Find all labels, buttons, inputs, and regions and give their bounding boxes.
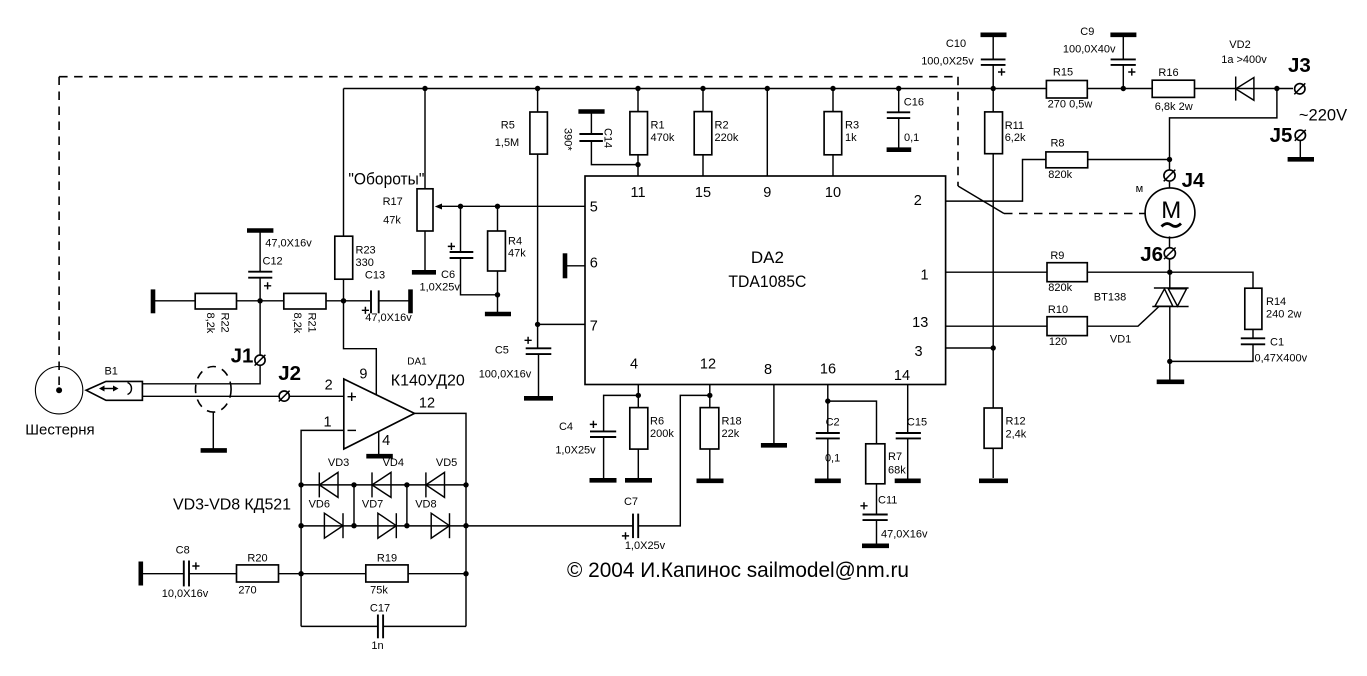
wire: pin1 to R9 [946,271,1047,273]
svg-text:R5: R5 [501,119,515,131]
svg-text:390*: 390* [562,128,574,151]
junction pin5/C6 [458,204,463,209]
svg-text:1,5M: 1,5M [495,137,519,149]
resistor R7 [866,444,885,484]
svg-text:R16: R16 [1158,67,1178,79]
svg-text:C1: C1 [1270,337,1284,349]
svg-text:R2: R2 [715,120,729,132]
resistor R14 [1245,288,1262,329]
ground R12 [979,478,1008,483]
wire: R18 ground lead [709,449,711,479]
diode VD3 [319,472,338,497]
wire: R4 top lead [497,206,499,231]
label C10 plus [998,68,1005,75]
wire: triac bottom lead [1169,306,1171,379]
wire: B1 top lead to J1 [142,301,260,384]
svg-text:R23: R23 [356,245,376,257]
wire: pin3 to R11/R12 junction [946,347,994,349]
ground C15 [895,478,921,483]
wire: R17 bottom lead [424,231,426,271]
svg-text:8: 8 [764,362,772,378]
ground R4 [485,312,511,317]
svg-text:0,1: 0,1 [825,453,840,465]
svg-text:820k: 820k [1048,169,1072,181]
diode VD4 [372,472,391,497]
IC DA2 TDA1085C [585,176,946,385]
svg-text:47,0X16v: 47,0X16v [365,312,412,324]
svg-text:VD1: VD1 [1110,334,1131,346]
svg-text:VD3-VD8 КД521: VD3-VD8 КД521 [173,496,291,513]
wire: pin2 to R8 [946,160,1046,202]
sensor B1 body [86,381,142,400]
connector J4 [1164,170,1176,182]
svg-text:R19: R19 [377,553,397,565]
junction R1/C14 [635,162,640,167]
resistor R19 [366,565,408,582]
svg-text:R6: R6 [650,416,664,428]
terminal bar left of R22 [151,289,156,313]
diode VD6 [324,513,343,538]
junction bus/R5 [535,86,540,91]
svg-text:VD7: VD7 [362,499,383,511]
svg-text:TDA1085C: TDA1085C [728,272,806,291]
capacitor C1 [1241,329,1265,344]
wire: opamp pin4 ground lead [378,432,380,455]
wire: pin9 branch [766,89,768,177]
svg-text:C6: C6 [441,269,455,281]
wire: opamp pin1 feedback vertical [301,430,344,626]
svg-text:м: м [1136,183,1144,195]
svg-text:J5: J5 [1270,124,1293,147]
wire: R6 ground lead [637,449,639,478]
label C8 plus [192,562,199,569]
svg-text:C8: C8 [176,545,190,557]
svg-text:R22: R22 [219,313,231,333]
resistor R10 [1047,317,1087,336]
junction R8/motor [1167,157,1172,162]
wire: motor to J6 [1169,236,1171,272]
svg-text:100,0X40v: 100,0X40v [1063,44,1116,56]
svg-text:R18: R18 [722,416,742,428]
resistor R9 [1047,263,1087,282]
capacitor C2 [816,433,840,479]
svg-text:9: 9 [359,366,367,382]
svg-text:15: 15 [695,185,711,201]
svg-text:1a >400v: 1a >400v [1221,54,1267,66]
ground C11 [862,543,889,548]
svg-text:VD4: VD4 [383,457,404,469]
junction bus/R17 [422,86,427,91]
svg-text:"Обороты": "Обороты" [348,170,424,189]
wire: opamp pin12 output vertical [415,413,467,626]
wire: R19 to output vertical [408,573,466,575]
junction row1 a [298,482,303,487]
capacitor C11 [863,484,888,544]
svg-text:4: 4 [630,357,638,373]
resistor R20 [237,565,279,582]
svg-text:100,0X25v: 100,0X25v [921,56,974,68]
resistor R3 [824,112,842,155]
junction bus/R1 [635,86,640,91]
svg-text:R8: R8 [1050,138,1064,150]
svg-text:C15: C15 [907,417,927,429]
ground C5 [524,396,553,401]
svg-text:7: 7 [590,319,598,335]
junction row2 b [351,523,356,528]
svg-text:К140УД20: К140УД20 [391,373,465,390]
junction row2 c [404,523,409,528]
diode VD5 [426,472,445,497]
svg-text:12: 12 [700,357,716,373]
svg-text:0,1: 0,1 [904,132,919,144]
junction pin3 [991,345,996,350]
svg-text:C11: C11 [878,495,897,507]
svg-text:R12: R12 [1006,416,1026,428]
svg-text:J4: J4 [1182,169,1205,192]
capacitor C12 [247,231,273,301]
svg-text:R7: R7 [888,451,902,463]
svg-text:47k: 47k [383,215,401,227]
svg-text:R20: R20 [247,553,267,565]
wire: R2 branch to pin15 [702,89,704,177]
resistor R6 [630,408,648,450]
wire: R17 branch from bus [424,89,426,189]
svg-text:R11: R11 [1005,120,1024,132]
svg-text:3: 3 [914,344,922,360]
wire: top supply bus [344,88,1294,90]
junction bus/C9 [1121,86,1126,91]
svg-text:270: 270 [238,585,256,597]
ground J5 [1288,157,1314,162]
wire: J3 branch down to motor [1170,89,1277,170]
ground shield [201,448,227,453]
svg-text:1,0X25v: 1,0X25v [555,445,596,457]
svg-text:R15: R15 [1053,66,1073,78]
svg-text:1k: 1k [845,132,857,144]
svg-text:M: M [1161,197,1181,224]
svg-text:330: 330 [356,257,374,269]
junction row2 a [298,523,303,528]
label C11 plus [860,502,867,509]
diode VD8 [431,513,449,538]
gear sensor circle (Шестерня) [35,367,82,414]
svg-text:2: 2 [914,193,922,209]
svg-text:10,0X16v: 10,0X16v [162,588,209,600]
wire: pin4 branch [637,385,639,450]
wire: shield ground lead [212,412,214,449]
wire: dashed link to motor [1004,213,1162,215]
junction bus/R2 [700,86,705,91]
capacitor C4 [590,431,616,478]
junction bus/R3 [830,86,835,91]
svg-text:9: 9 [763,185,771,201]
terminal bar left of C8 [139,562,144,586]
connector J5 [1295,130,1306,141]
svg-text:0,47X400v: 0,47X400v [1255,353,1308,365]
svg-text:16: 16 [820,362,836,378]
svg-text:R17: R17 [383,196,403,208]
capacitor C5 [526,348,552,396]
svg-text:2,4k: 2,4k [1006,429,1027,441]
svg-text:VD5: VD5 [436,457,457,469]
svg-text:~220V: ~220V [1299,107,1347,125]
label C12 plus [264,282,271,289]
wire: pin13 to R10 [946,325,1047,327]
svg-text:BT138: BT138 [1094,292,1126,304]
svg-text:100,0X16v: 100,0X16v [479,369,532,381]
wire: C17 bottom row [301,625,378,627]
svg-text:J6: J6 [1140,243,1163,266]
wire: R23 branch vertical from bus to opamp pin9 [344,89,377,395]
junction R21/R23/C13 [341,298,346,303]
connector J2 [279,391,290,402]
svg-text:C5: C5 [495,345,509,357]
svg-text:47k: 47k [508,248,526,260]
resistor R23 [335,236,353,279]
svg-text:B1: B1 [104,365,117,377]
wire: pin7 stub [538,323,585,325]
svg-text:© 2004 И.Капинос sailmodel@nm.: © 2004 И.Капинос sailmodel@nm.ru [567,558,909,582]
junction bus/C16 [896,86,901,91]
label C5 plus [525,337,532,344]
wire: R20 to R19 [279,573,366,575]
resistor R4 [488,231,506,271]
svg-text:VD6: VD6 [309,499,330,511]
svg-text:6,8k 2w: 6,8k 2w [1155,101,1193,113]
motor M circle [1145,188,1195,238]
wire: dashed mechanical link right vertical [957,77,959,186]
resistor R5 [530,112,548,154]
svg-text:R1: R1 [651,120,665,132]
ground R6 [625,478,652,483]
svg-text:6: 6 [590,256,598,272]
svg-text:820k: 820k [1048,282,1072,294]
svg-text:200k: 200k [650,428,674,440]
wire: pin16 to R7 [828,401,877,444]
svg-text:C14: C14 [602,128,614,148]
capacitor C16 [887,89,910,149]
svg-text:J2: J2 [278,362,301,385]
svg-text:22k: 22k [722,428,740,440]
wire: R22 R21 C13 row [155,300,370,302]
svg-text:C7: C7 [624,496,638,508]
svg-text:VD2: VD2 [1229,39,1250,51]
resistor R11 [985,112,1003,154]
wire: pin14 branch [907,385,909,434]
ground pin8 [761,443,787,448]
junction pin5/R4 [495,204,500,209]
junction pin4 [636,393,641,398]
svg-text:C17: C17 [370,603,390,615]
opamp plus sign [348,393,357,401]
wire: R8 to motor net [1088,159,1170,161]
wire: diode row 2 to C7 [301,525,633,527]
resistor R8 [1046,152,1088,168]
junction pin16 [825,398,830,403]
junction row1 b [351,482,356,487]
wire: R5 branch from bus to pin7 and C5 [537,89,539,349]
junction R22/R21/C12 [257,298,262,303]
svg-text:J1: J1 [231,345,254,368]
wire: dashed mechanical link left vertical [58,77,60,385]
wire: J6 node to triac [1169,272,1171,287]
svg-text:120: 120 [1049,336,1067,348]
wire: B1 bottom lead to opamp pin2 [142,395,344,397]
svg-text:C4: C4 [559,421,573,433]
svg-text:6,2k: 6,2k [1005,132,1026,144]
wire: pin4 to C4 [604,395,639,431]
wire: J4 to motor [1169,182,1171,188]
svg-text:Шестерня: Шестерня [25,422,94,439]
svg-text:2: 2 [325,378,333,394]
resistor R15 [1046,81,1087,99]
wire: R4 bottom lead [497,271,499,312]
svg-text:240 2w: 240 2w [1266,309,1302,321]
resistor R22 [195,293,236,309]
svg-text:47,0X16v: 47,0X16v [881,529,928,541]
label C4 plus [590,421,597,428]
wire: diode rows link b [406,485,408,526]
ground opamp pin4 [366,454,393,459]
svg-text:DA2: DA2 [751,248,784,267]
svg-text:R4: R4 [508,236,522,248]
junction J6/R9 [1167,270,1172,275]
junction R19/output [463,571,468,576]
ground R18 [697,478,724,483]
svg-text:C10: C10 [946,38,966,50]
wire: R10 to triac gate [1087,307,1159,327]
wire: R12 ground lead [992,448,994,478]
wire: diagonal link segment [958,186,1004,214]
triac VD1 BT138 [1152,288,1188,307]
diode VD2 [1236,77,1254,101]
resistor R16 [1152,80,1194,97]
svg-text:14: 14 [894,368,910,384]
motor tilde [1162,224,1182,227]
svg-text:75k: 75k [370,585,388,597]
junction bus/J3 branch [1274,86,1279,91]
capacitor C14 [578,112,638,165]
svg-text:4: 4 [382,433,390,449]
svg-text:68k: 68k [888,465,906,477]
svg-text:8,2k: 8,2k [291,313,303,334]
svg-text:C16: C16 [904,96,924,108]
wire: R1 branch to pin11 [637,89,639,177]
svg-text:47,0X16v: 47,0X16v [265,238,312,250]
label C9 plus [1128,68,1135,75]
wire: C1 bottom to triac node [1170,344,1253,361]
wire: R9 to J6 node and R14 [1087,272,1253,288]
op-amp DA1 [344,379,415,449]
svg-text:470k: 470k [651,132,675,144]
junction row1 d [463,482,468,487]
svg-text:R10: R10 [1048,304,1068,316]
connector J3 [1294,83,1305,94]
svg-text:R14: R14 [1266,296,1286,308]
svg-text:VD8: VD8 [415,499,436,511]
svg-text:11: 11 [630,185,645,201]
junction pin7 [535,322,540,327]
capacitor C17 [378,615,466,639]
wire: pin8 ground lead [773,385,775,444]
svg-text:13: 13 [912,315,928,331]
capacitor C6 [450,206,498,294]
wire: dashed mechanical link top horizontal [59,76,958,78]
junction bus/pin9 [765,86,770,91]
shield ellipse [196,367,232,413]
resistor R12 [984,408,1002,448]
opamp minus sign [348,429,357,431]
connector J6 [1164,248,1176,260]
svg-text:C9: C9 [1080,26,1094,38]
ground C4 [590,478,617,483]
svg-text:R21: R21 [306,313,318,333]
svg-text:R3: R3 [845,120,859,132]
svg-text:1,0X25v: 1,0X25v [420,282,461,294]
junction pin12 [707,393,712,398]
junction triac/C1 [1167,359,1172,364]
svg-text:1,0X25v: 1,0X25v [625,540,666,552]
label C13 plus [362,307,369,314]
svg-text:C2: C2 [826,417,840,429]
capacitor C13 [371,290,409,313]
svg-text:220k: 220k [715,132,739,144]
ground R17 [412,270,436,275]
wire: diode row 1 [301,484,466,486]
wire: C8 R20 R19 row [143,573,184,575]
capacitor C7 [633,395,710,538]
resistor R18 [700,408,719,449]
label C7 plus [622,532,629,539]
junction row1 c [404,482,409,487]
svg-text:J3: J3 [1288,54,1311,77]
junction R4/C6 [495,292,500,297]
wire: pin12 branch [709,385,711,408]
ground triac [1157,379,1185,384]
junction R20/pin1 net [298,571,303,576]
wire: pin16 branch [827,385,829,434]
svg-text:1: 1 [324,414,332,430]
connector J1 [255,355,266,366]
wire: diode rows link a [353,485,355,526]
ground C2 [815,478,841,483]
junction bus/C10 [991,86,996,91]
terminal bar right of C13 [408,289,413,313]
capacitor C8 [184,561,237,587]
resistor R21 [284,293,326,309]
label C6 plus [448,243,455,250]
svg-text:10: 10 [825,185,841,201]
svg-text:270 0,5w: 270 0,5w [1048,99,1093,111]
svg-text:DA1: DA1 [407,357,427,368]
resistor R2 [694,112,712,155]
svg-text:8,2k: 8,2k [204,313,216,334]
junction row2 d [463,523,468,528]
potentiometer R17 [417,189,442,231]
wire: R3 branch to pin10 [832,89,834,177]
capacitor C15 [896,433,921,479]
ground C16 [887,147,912,152]
diode VD7 [378,513,396,538]
svg-text:1n: 1n [371,640,383,652]
wire: pin5 net [441,205,585,207]
capacitor C9 [1110,35,1136,89]
svg-text:R9: R9 [1050,250,1064,262]
pin 6 terminal stub [565,253,585,278]
svg-text:5: 5 [590,200,598,216]
wire: J5 ground lead [1299,141,1301,158]
svg-text:1: 1 [920,268,928,284]
